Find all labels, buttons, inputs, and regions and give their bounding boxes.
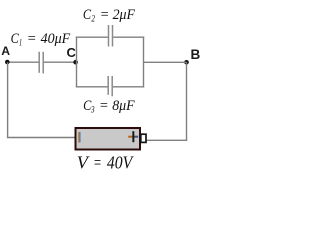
battery plus sign xyxy=(128,131,138,142)
svg-text:=: = xyxy=(100,7,110,23)
svg-text:=: = xyxy=(93,153,102,173)
label C3 value xyxy=(83,98,135,115)
capacitor C1 xyxy=(39,52,43,74)
battery negative terminal mark xyxy=(78,132,81,143)
label C2 value xyxy=(83,7,136,24)
wire: top branch right segment xyxy=(113,36,144,38)
wire: B down xyxy=(186,62,188,140)
svg-text:A: A xyxy=(1,44,10,58)
node A xyxy=(1,44,10,65)
wire: bottom branch right segment xyxy=(113,86,144,88)
label V value xyxy=(77,153,134,173)
node B xyxy=(184,47,200,65)
wire: node to B xyxy=(144,61,187,63)
battery V body xyxy=(76,128,141,150)
svg-text:2: 2 xyxy=(91,15,95,25)
wire: bottom right horizontal xyxy=(146,139,187,141)
node C xyxy=(67,45,78,65)
svg-text:=: = xyxy=(99,98,109,114)
wire: bottom left horizontal xyxy=(7,137,76,139)
wire: A down xyxy=(7,62,9,137)
svg-text:40V: 40V xyxy=(107,153,134,173)
battery positive terminal nub xyxy=(141,134,146,142)
svg-text:C: C xyxy=(67,45,77,60)
wire: bottom branch left segment xyxy=(76,86,108,88)
wire A to C1 xyxy=(7,61,38,63)
wire: parallel-branch right vertical xyxy=(143,37,145,88)
svg-text:2μF: 2μF xyxy=(113,7,136,23)
capacitor C3 xyxy=(108,76,112,96)
wire: top branch left segment xyxy=(76,36,109,38)
label C1 value xyxy=(11,31,71,48)
svg-text:=: = xyxy=(27,31,37,47)
svg-text:3: 3 xyxy=(90,106,95,116)
svg-text:8μF: 8μF xyxy=(112,98,135,114)
wire: parallel-branch left vertical xyxy=(76,37,78,87)
svg-text:1: 1 xyxy=(19,38,22,48)
svg-text:B: B xyxy=(191,47,201,62)
svg-text:V: V xyxy=(77,153,90,173)
capacitor C2 xyxy=(109,25,113,47)
wire C1 to node C xyxy=(44,61,77,63)
